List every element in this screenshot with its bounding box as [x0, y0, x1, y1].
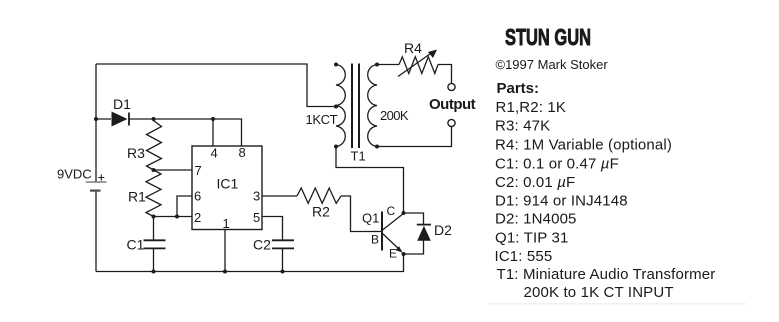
- svg-text:Parts:: Parts:: [497, 80, 540, 97]
- svg-text:C2: 0.01 µF: C2: 0.01 µF: [495, 174, 575, 191]
- svg-text:R1,R2: 1K: R1,R2: 1K: [496, 99, 567, 116]
- svg-text:2: 2: [194, 210, 201, 225]
- svg-text:R4: 1M Variable (optional): R4: 1M Variable (optional): [495, 137, 672, 154]
- svg-text:D2: D2: [434, 222, 452, 238]
- svg-text:1: 1: [223, 216, 230, 231]
- svg-text:7: 7: [195, 163, 202, 178]
- svg-text:200K: 200K: [380, 108, 409, 123]
- svg-text:C1: C1: [127, 237, 145, 253]
- svg-text:D1: D1: [113, 96, 131, 112]
- svg-text:200K to 1K CT INPUT: 200K to 1K CT INPUT: [524, 284, 674, 301]
- svg-text:C: C: [387, 204, 396, 218]
- svg-text:IC1: IC1: [217, 176, 239, 192]
- svg-text:C1: 0.1 or 0.47 µF: C1: 0.1 or 0.47 µF: [495, 155, 619, 172]
- svg-text:D1: 914 or INJ4148: D1: 914 or INJ4148: [495, 192, 628, 209]
- svg-text:IC1: 555: IC1: 555: [495, 248, 553, 265]
- svg-text:D2: 1N4005: D2: 1N4005: [495, 211, 577, 228]
- svg-text:8: 8: [239, 145, 246, 160]
- svg-text:R3: R3: [127, 145, 145, 161]
- svg-text:C2: C2: [253, 237, 271, 253]
- svg-text:R1: R1: [128, 189, 146, 205]
- svg-text:Q1: Q1: [362, 211, 379, 226]
- svg-text:Q1: TIP 31: Q1: TIP 31: [495, 229, 569, 246]
- svg-text:B: B: [371, 233, 379, 247]
- svg-text:©1997 Mark Stoker: ©1997 Mark Stoker: [496, 57, 609, 72]
- svg-text:T1: T1: [351, 149, 366, 164]
- svg-text:T1: Miniature Audio Transforme: T1: Miniature Audio Transformer: [497, 266, 716, 283]
- svg-text:5: 5: [253, 210, 260, 225]
- svg-text:4: 4: [211, 146, 218, 161]
- svg-text:Output: Output: [429, 96, 476, 113]
- svg-text:R2: R2: [312, 204, 330, 220]
- svg-text:R4: R4: [404, 40, 422, 56]
- svg-text:3: 3: [253, 188, 260, 203]
- svg-text:1KCT: 1KCT: [306, 112, 338, 127]
- svg-text:9VDC: 9VDC: [57, 166, 92, 181]
- svg-text:R3: 47K: R3: 47K: [495, 118, 550, 135]
- svg-text:6: 6: [194, 188, 201, 203]
- svg-text:STUN GUN: STUN GUN: [505, 24, 591, 50]
- svg-text:E: E: [389, 247, 397, 261]
